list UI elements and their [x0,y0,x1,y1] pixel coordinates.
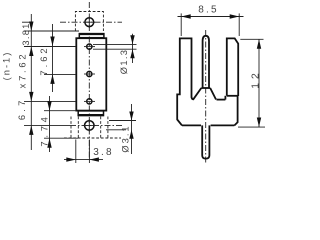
arrow E down at 120.5 [129,112,133,121]
arrow A up at 125.4 [29,125,33,134]
pin below body [202,125,209,158]
arrow 12 down [257,118,261,128]
extension line dashed bottom left [44,137,78,139]
arrow D down at 44.3 [130,35,134,44]
svg-text:3.8: 3.8 [93,147,114,158]
svg-text:3.81: 3.81 [21,22,31,45]
dim line D1.3 [132,34,134,63]
funnel right slope [210,88,216,100]
extension line hole2 left [44,73,76,75]
bottom cap lower edge thick [78,114,103,116]
centerline vertical right view [205,30,207,163]
arrow C up at 138.2 [47,138,51,148]
funnel right vertical to ledge [224,96,226,100]
arrow right at 75.8 [66,157,76,161]
cap (tab) top [79,34,104,38]
dim 8.5 line [178,16,244,18]
funnel left slope [192,88,202,99]
dashed phantom rect top [75,12,103,32]
bottom cap [78,111,103,116]
extension line hole3 left [24,100,76,102]
right wall of housing [227,38,238,96]
arrow left at 89.4 [89,157,99,161]
body rectangle [76,38,106,110]
body bottom edge left of pin [182,124,201,126]
arrow 12 up [257,39,261,49]
dim line 3.8 [64,159,103,161]
extension line hole1 left [24,46,76,48]
ext 12 top [240,38,263,40]
hole 1 crosshair tick [84,46,95,48]
dim line A [30,14,32,150]
hidden dashed verticals below body [70,117,72,139]
dim line D3.1 [131,104,133,154]
extension line big circle center left [24,124,70,126]
hole 2 [87,71,92,76]
funnel right horizontal [217,99,226,101]
dim line B [52,24,54,92]
svg-text:x7.62: x7.62 [18,52,28,89]
ext 12 bottom [238,126,265,128]
big hole circle [85,121,94,130]
arrow 8.5 right [230,14,240,18]
left wall of housing [177,38,191,125]
mounting hole circle with crosshair [85,18,94,27]
svg-text:7.74: 7.74 [40,113,50,146]
ext verticals 3.8 dim [75,140,77,164]
arrow A down at 31 [29,22,33,32]
ext lines big circle right [109,120,136,122]
svg-text:6.7: 6.7 [17,98,27,121]
dim 12 line [258,39,260,127]
funnel plateau [201,87,210,89]
ext vertical 8.5 right [238,13,240,36]
hole 1 [87,44,92,49]
arrow A up at 46.5 [29,47,33,57]
dim line C [49,96,51,152]
right wall bottom ledge [227,95,238,97]
hidden dashed horizontal bottom [64,137,121,139]
tick at circle center far left [22,21,30,23]
ext vertical 8.5 left [180,13,182,36]
arrow D up at 48.9 [130,49,134,58]
arrow A down at 101.4 [29,92,33,102]
arrow 8.5 left [181,14,191,18]
body outer right below ledge [234,96,237,126]
svg-text:Ø3.1: Ø3.1 [121,124,131,152]
centerline vertical left view [88,2,90,160]
svg-text:(n-1): (n-1) [2,51,12,81]
extension line body bottom left [44,110,76,112]
arrow E up at 129.5 [129,130,133,139]
ext lines hole1 right [93,43,137,45]
centerline horizontal through mounting circle [60,21,122,23]
hole 3 [87,99,92,104]
arrow B up at 74.4 [50,74,54,84]
pin blade with dome top [203,36,209,88]
svg-text:8.5: 8.5 [198,5,219,16]
body bottom edge right of pin [211,124,235,126]
arrow C down at 110.7 [47,101,51,111]
cap top edge thick [79,33,104,35]
centerline horizontal big circle [70,124,122,126]
svg-text:7.62: 7.62 [39,45,49,75]
svg-text:Ø1.3: Ø1.3 [119,49,129,74]
svg-text:12: 12 [250,69,261,89]
arrow B down at 46 [50,37,54,47]
hole 2 crosshair tick [84,73,95,75]
extension line cap top [24,30,79,32]
hole 3 crosshair tick [84,100,95,102]
